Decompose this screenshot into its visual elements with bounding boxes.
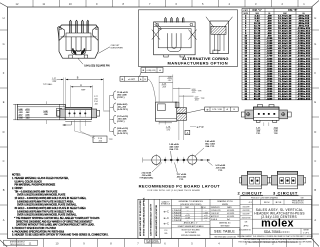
svg-text:CAVITY NUMBERS EACH CAVITY: CAVITY NUMBERS EACH CAVITY [149, 203, 152, 236]
svg-text:H: H [3, 16, 5, 20]
brace connector lines [109, 95, 111, 131]
svg-text:WITHIN DIMENSIONS: WITHIN DIMENSIONS [181, 235, 201, 237]
dimension groups with braces [112, 91, 116, 100]
2.54/.100 boxed label [93, 136, 107, 143]
doc number row [240, 233, 312, 235]
svg-text:IDENTIFIER: IDENTIFIER [111, 47, 124, 49]
svg-text:SHEET: SHEET [303, 229, 309, 231]
wing crosshair circles [247, 113, 250, 116]
svg-text:⊕: ⊕ [121, 78, 123, 81]
svg-text:CARTONS WITHOUT THIS LABEL MAY: CARTONS WITHOUT THIS LABEL MAY CONTAIN P… [16, 224, 95, 227]
svg-text:(3–25 CKT.): (3–25 CKT.) [117, 133, 128, 135]
alt coring section view [206, 17, 233, 54]
left hole circle [152, 156, 161, 165]
svg-text:05/12/99: 05/12/99 [243, 206, 250, 208]
left zone ticks and letters [0, 29, 8, 31]
svg-text:0.000030(0.00076) MIN TIN PLAT: 0.000030(0.00076) MIN TIN PLATE IN SELEC… [17, 210, 74, 213]
svg-text:INCH: INCH [264, 202, 270, 204]
GD&T box 2 [120, 77, 148, 82]
svg-text:⊕: ⊕ [206, 108, 208, 111]
isometric connector view [58, 20, 99, 58]
bottom-left revision box [4, 240, 38, 245]
see table cell [210, 228, 240, 235]
svg-text:.3800±.015: .3800±.015 [297, 98, 311, 100]
pin leads down / leaders to label [74, 120, 76, 131]
svg-text:⊕–C: ⊕–C [163, 216, 169, 220]
svg-text:TYP.(ACCUM.): TYP.(ACCUM.) [139, 177, 153, 180]
svg-text:B: B [314, 188, 316, 192]
lines below hatch [178, 120, 180, 140]
side profile view [17, 104, 65, 120]
top zone ticks and numbers [32, 0, 34, 7]
svg-text:DRAWING STYLE: DRAWING STYLE [217, 200, 233, 203]
svg-text:⊕ TYP.: ⊕ TYP. [197, 126, 205, 129]
height dim line [14, 104, 16, 120]
svg-text:DIA. TYP.: DIA. TYP. [206, 145, 215, 148]
svg-text:CKT.: CKT. [243, 10, 248, 12]
extension lines [63, 78, 65, 108]
svg-text:DATE: DATE [227, 206, 233, 209]
svg-text:0.76 / .030: 0.76 / .030 [212, 109, 223, 111]
circuit size dimension table [242, 9, 312, 100]
svg-text:MATERIAL NO.: MATERIAL NO. [219, 222, 231, 225]
svg-text:15 GOLD – 0.000015(0.00038) MI: 15 GOLD – 0.000015(0.00038) MIN GOLD PLA… [15, 197, 87, 200]
svg-text:96.52±0.38: 96.52±0.38 [278, 98, 292, 100]
quality symbols column [171, 199, 173, 238]
svg-text:TYP.: TYP. [256, 133, 261, 135]
svg-text:B: B [3, 188, 5, 192]
svg-text:BD.: BD. [165, 233, 169, 235]
svg-text:1 OF 1: 1 OF 1 [303, 232, 310, 234]
svg-text:E: E [3, 100, 5, 104]
svg-text:(2 CKT.): (2 CKT.) [117, 121, 125, 123]
svg-text:05/12/99: 05/12/99 [243, 214, 250, 216]
svg-text:(UNLESS SPECIFIED): (UNLESS SPECIFIED) [180, 204, 202, 206]
extension lines up [158, 76, 160, 102]
svg-text:MUST NOT EXCEED: MUST NOT EXCEED [182, 229, 201, 231]
svg-text:⊕: ⊕ [142, 69, 144, 72]
svg-text:—: — [187, 220, 189, 222]
svg-text:GENERAL TOLERANCES: GENERAL TOLERANCES [178, 200, 203, 203]
alt coring front view [152, 18, 197, 58]
svg-text:MOD AND DATE NO TO BE LOCATED: MOD AND DATE NO TO BE LOCATED [139, 200, 142, 236]
bottom zone ticks and numbers [16, 239, 18, 247]
svg-text:A: A [3, 218, 5, 222]
right title block [240, 195, 312, 197]
svg-text:TYP.: TYP. [179, 179, 184, 181]
front view connector [57, 107, 100, 121]
svg-text:DOCUMENT NO: DOCUMENT NO [239, 230, 252, 232]
svg-text:G: G [3, 42, 5, 46]
section view [156, 102, 187, 121]
alternative coring manufacturers option box [139, 10, 238, 67]
svg-text:DIM. "B": DIM. "B" [288, 10, 297, 12]
svg-text:DRAFT WHERE APPLICABLE: DRAFT WHERE APPLICABLE [178, 225, 205, 228]
svg-text:⊕–C: ⊕–C [163, 210, 169, 214]
2 circuit view [240, 171, 270, 189]
svg-text:TYP.: TYP. [201, 98, 206, 100]
svg-text:0.38(.015): 0.38(.015) [147, 70, 156, 72]
dim lines above front view [66, 79, 104, 81]
svg-text:TYP.: TYP. [218, 170, 223, 172]
below-table connector view [241, 105, 291, 123]
pc board layout centerline [143, 159, 210, 161]
svg-text:OVER 0.00127(0.000050) MIN NIC: OVER 0.00127(0.000050) MIN NICKEL PLATE … [17, 204, 77, 207]
svg-text:30 GOLD – 0.000030(0.00076) MI: 30 GOLD – 0.000030(0.00076) MIN GOLD PLA… [15, 207, 87, 210]
svg-text:FOR USE WITH .062 (1.60) MAX T: FOR USE WITH .062 (1.60) MAX THICK BOARD [148, 189, 201, 192]
vertical text columns [148, 199, 150, 238]
svg-text:SEE TABLE: SEE TABLE [214, 230, 235, 234]
svg-text:3 CIRCUIT: 3 CIRCUIT [273, 191, 298, 196]
svg-text:DIRECTIVE 2002/95/EC AND ELV A: DIRECTIVE 2002/95/EC AND ELV ANNEX II OF… [16, 220, 93, 223]
svg-text:DIM. "A": DIM. "A" [253, 9, 262, 12]
svg-text:* THE PRIMARY SHIPPING CARTON: * THE PRIMARY SHIPPING CARTON WILL BE LA… [14, 217, 100, 220]
drwn/chkd block [209, 199, 211, 238]
svg-text:.3400: .3400 [266, 97, 273, 100]
svg-text:A: A [314, 218, 316, 222]
datum A box [185, 130, 190, 134]
svg-text:2 CIRCUIT: 2 CIRCUIT [238, 191, 263, 196]
svg-text:2005/07/08: 2005/07/08 [242, 217, 251, 219]
svg-text:0.64 (.025) SQUARE PIN: 0.64 (.025) SQUARE PIN [84, 64, 110, 67]
svg-text:05/12/99: 05/12/99 [243, 210, 250, 212]
svg-text:P.C.: P.C. [164, 230, 168, 232]
svg-text:BOTH WAYS: BOTH WAYS [185, 231, 197, 234]
right hole circle [188, 155, 197, 164]
svg-text:MANUFACTURERS OPTION: MANUFACTURERS OPTION [168, 61, 229, 66]
svg-text:0.000030(0.00076) MIN TIN PLAT: 0.000030(0.00076) MIN TIN PLATE IN SELEC… [17, 200, 74, 203]
svg-text:5. HEADER TO BE USED WITH OPTI: 5. HEADER TO BE USED WITH OPTION "B" 704… [12, 234, 109, 237]
svg-text:D: D [3, 130, 5, 134]
svg-text:3. PRODUCT SPECIFICATION: PS-7: 3. PRODUCT SPECIFICATION: PS-70543 [12, 227, 56, 230]
svg-text:E: E [314, 100, 316, 104]
svg-text:WITHIN THE AREA INDICATED APPR: WITHIN THE AREA INDICATED APPROX [143, 197, 146, 236]
svg-text:SDA-70545-□□□□: SDA-70545-□□□□ [264, 230, 289, 234]
svg-text:C: C [3, 159, 5, 163]
title block outer [138, 199, 312, 238]
svg-text:⊕–C: ⊕–C [163, 222, 169, 226]
svg-text:SEE TABLE: SEE TABLE [220, 225, 230, 228]
0.76/.030 boxed label [205, 107, 239, 111]
leader arrow bottom-left [63, 122, 72, 126]
svg-text:SYMBOLS: SYMBOLS [161, 204, 171, 206]
svg-text:PIN MATERIAL: PHOSPHOR BRONZE: PIN MATERIAL: PHOSPHOR BRONZE [15, 184, 56, 187]
svg-text:.100: .100 [94, 103, 98, 105]
svg-text:H: H [314, 16, 316, 20]
svg-text:D: D [314, 130, 316, 134]
svg-text:REV. B 2005/07/13: REV. B 2005/07/13 [10, 244, 24, 246]
front view pins [69, 112, 71, 114]
GD&T box 1 [141, 68, 163, 73]
EC no box [145, 239, 161, 243]
svg-text:molex: molex [261, 218, 294, 230]
svg-text:2. FINISH:: 2. FINISH: [12, 188, 23, 190]
svg-text:4. PACKAGING SPECIFICATION: PK: 4. PACKAGING SPECIFICATION: PK-70873-001… [12, 230, 65, 233]
svg-text:NOTES:: NOTES: [12, 175, 21, 177]
svg-text:PROJECTION: PROJECTION [292, 203, 304, 205]
svg-text:OVER 0.00127(0.000050) MIN NIC: OVER 0.00127(0.000050) MIN NICKEL PLATE [17, 194, 66, 197]
svg-text:TYP.: TYP. [109, 139, 114, 141]
square pins [258, 113, 260, 115]
svg-text:(3–25 CKT.): (3–25 CKT.) [117, 109, 128, 111]
3 circuit view [269, 171, 305, 189]
svg-text:MM/IN: MM/IN [222, 204, 228, 206]
svg-text:APPR BY: APPR BY [211, 215, 220, 218]
svg-text:86.36: 86.36 [254, 98, 261, 100]
svg-text:TIN – 0.000030(0.00076) MIN TI: TIN – 0.000030(0.00076) MIN TIN PLATE [15, 190, 58, 193]
svg-text:—: — [205, 220, 207, 222]
svg-text:APPD: APPD [244, 224, 250, 227]
svg-text:TYP.: TYP. [274, 133, 279, 135]
svg-text:SCALE: SCALE [211, 218, 218, 221]
svg-text:ANGULAR ± 1°: ANGULAR ± 1° [184, 222, 198, 225]
svg-text:RECOMMENDED PC BOARD LAYOUT: RECOMMENDED PC BOARD LAYOUT [139, 183, 221, 188]
svg-text:UL94V-0, COLOR: BLACK: UL94V-0, COLOR: BLACK [15, 180, 43, 183]
svg-text:OVER 0.00127(0.000050) MIN NIC: OVER 0.00127(0.000050) MIN NICKEL PLATE … [17, 214, 77, 217]
svg-text:DIA. TYP.: DIA. TYP. [170, 148, 179, 151]
svg-text:G: G [314, 42, 316, 46]
svg-text:C: C [314, 159, 316, 163]
svg-text:(2 CKT.): (2 CKT.) [117, 97, 125, 99]
corner diagonals [0, 3, 8, 7]
svg-text:PRODUCT CUSTOMER DRAWING: PRODUCT CUSTOMER DRAWING [251, 197, 279, 200]
svg-text:TYP. BALL: TYP. BALL [43, 83, 54, 86]
small holes [164, 159, 166, 161]
svg-text:TYP.: TYP. [198, 90, 203, 92]
svg-text:⊕○⊖: ⊕○⊖ [276, 201, 283, 204]
svg-text:1. HEADER MATERIAL: GLASS FILL: 1. HEADER MATERIAL: GLASS FILLED POLYEST… [12, 177, 69, 180]
svg-text:MOLD AND DATE NO LOCATION: MOLD AND DATE NO LOCATION [155, 204, 158, 236]
